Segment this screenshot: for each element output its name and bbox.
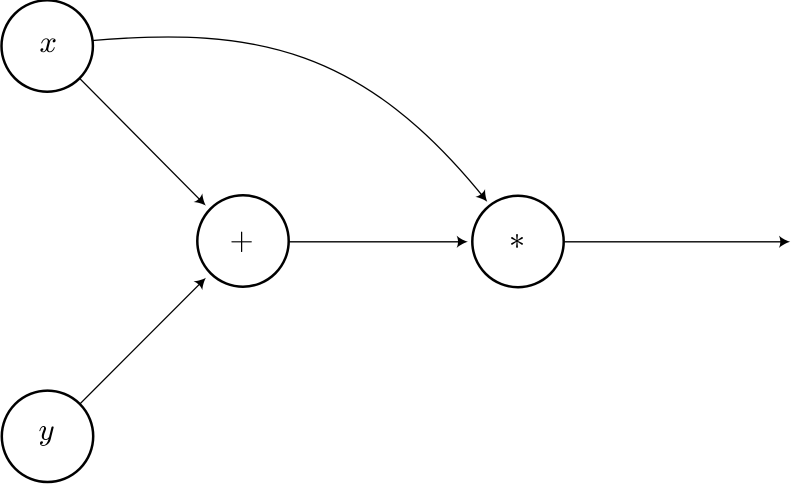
node y label: [39, 426, 53, 446]
node + circle: [197, 195, 288, 286]
node y circle: [2, 391, 93, 482]
wire * to output: [565, 236, 791, 248]
node x circle: [2, 0, 93, 91]
wire + to *: [290, 236, 468, 248]
node * circle: [472, 196, 563, 287]
node + label: [231, 232, 251, 252]
node x label: [40, 38, 55, 52]
wire x to * (curved): [93, 37, 492, 206]
wire y to +: [80, 273, 210, 403]
node * label: [511, 234, 523, 248]
wire x to +: [80, 79, 210, 210]
